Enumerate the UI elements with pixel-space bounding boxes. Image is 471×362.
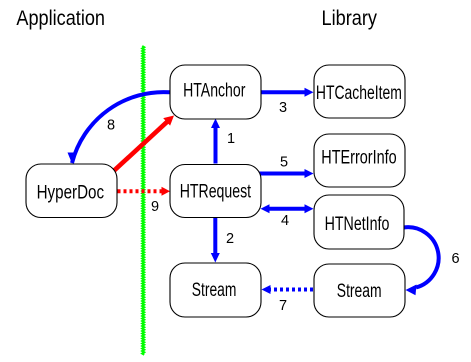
svg-text:HTAnchor: HTAnchor — [183, 81, 246, 102]
svg-text:1: 1 — [227, 131, 235, 147]
wire arrow 5 (HTRequest to HTErrorInfo) — [259, 154, 314, 178]
box Stream (library side lower-left) — [170, 263, 261, 317]
svg-text:9: 9 — [151, 199, 159, 215]
boundary green zigzag line — [142, 46, 144, 355]
wire arrow 9 (HyperDoc to HTRequest, red dotted) — [118, 187, 171, 215]
wire arrow 1 (HTRequest to HTAnchor) — [211, 119, 235, 164]
svg-text:HyperDoc: HyperDoc — [37, 182, 105, 203]
wire arrow 4 (HTRequest to HTNetInfo, double headed) — [261, 204, 314, 229]
svg-text:HTCacheItem: HTCacheItem — [316, 83, 402, 104]
wire arrow 8 (HTAnchor to HyperDoc, curved) — [68, 92, 171, 163]
box HTRequest — [170, 165, 261, 218]
svg-text:4: 4 — [281, 213, 289, 229]
box HTErrorInfo — [314, 134, 405, 187]
box Stream (right) — [314, 264, 405, 317]
box HTNetInfo — [314, 195, 404, 249]
svg-text:6: 6 — [451, 251, 459, 267]
svg-text:HTNetInfo: HTNetInfo — [325, 214, 390, 235]
svg-text:Stream: Stream — [337, 281, 382, 302]
box HTCacheItem — [314, 65, 405, 118]
wire arrow 6 (HTNetInfo to Stream, curved) — [404, 227, 460, 295]
svg-text:Library: Library — [322, 7, 378, 30]
wire arrow 2 (HTRequest to Stream) — [211, 218, 234, 263]
svg-text:2: 2 — [226, 231, 234, 247]
svg-text:3: 3 — [279, 100, 287, 116]
svg-text:8: 8 — [107, 118, 115, 134]
svg-text:Stream: Stream — [192, 280, 237, 301]
svg-text:HTErrorInfo: HTErrorInfo — [321, 147, 396, 168]
box HTAnchor — [170, 65, 261, 119]
svg-text:5: 5 — [280, 154, 288, 170]
svg-text:HTRequest: HTRequest — [180, 182, 252, 203]
svg-text:Application: Application — [16, 7, 105, 30]
box HyperDoc — [26, 164, 117, 218]
wire arrow 3 (HTAnchor to HTCacheItem) — [261, 88, 314, 116]
wire red arrow (HyperDoc to HTAnchor) — [112, 116, 174, 173]
wire arrow 7 (Stream to Stream, blue dotted) — [262, 285, 314, 314]
svg-text:7: 7 — [279, 298, 287, 314]
